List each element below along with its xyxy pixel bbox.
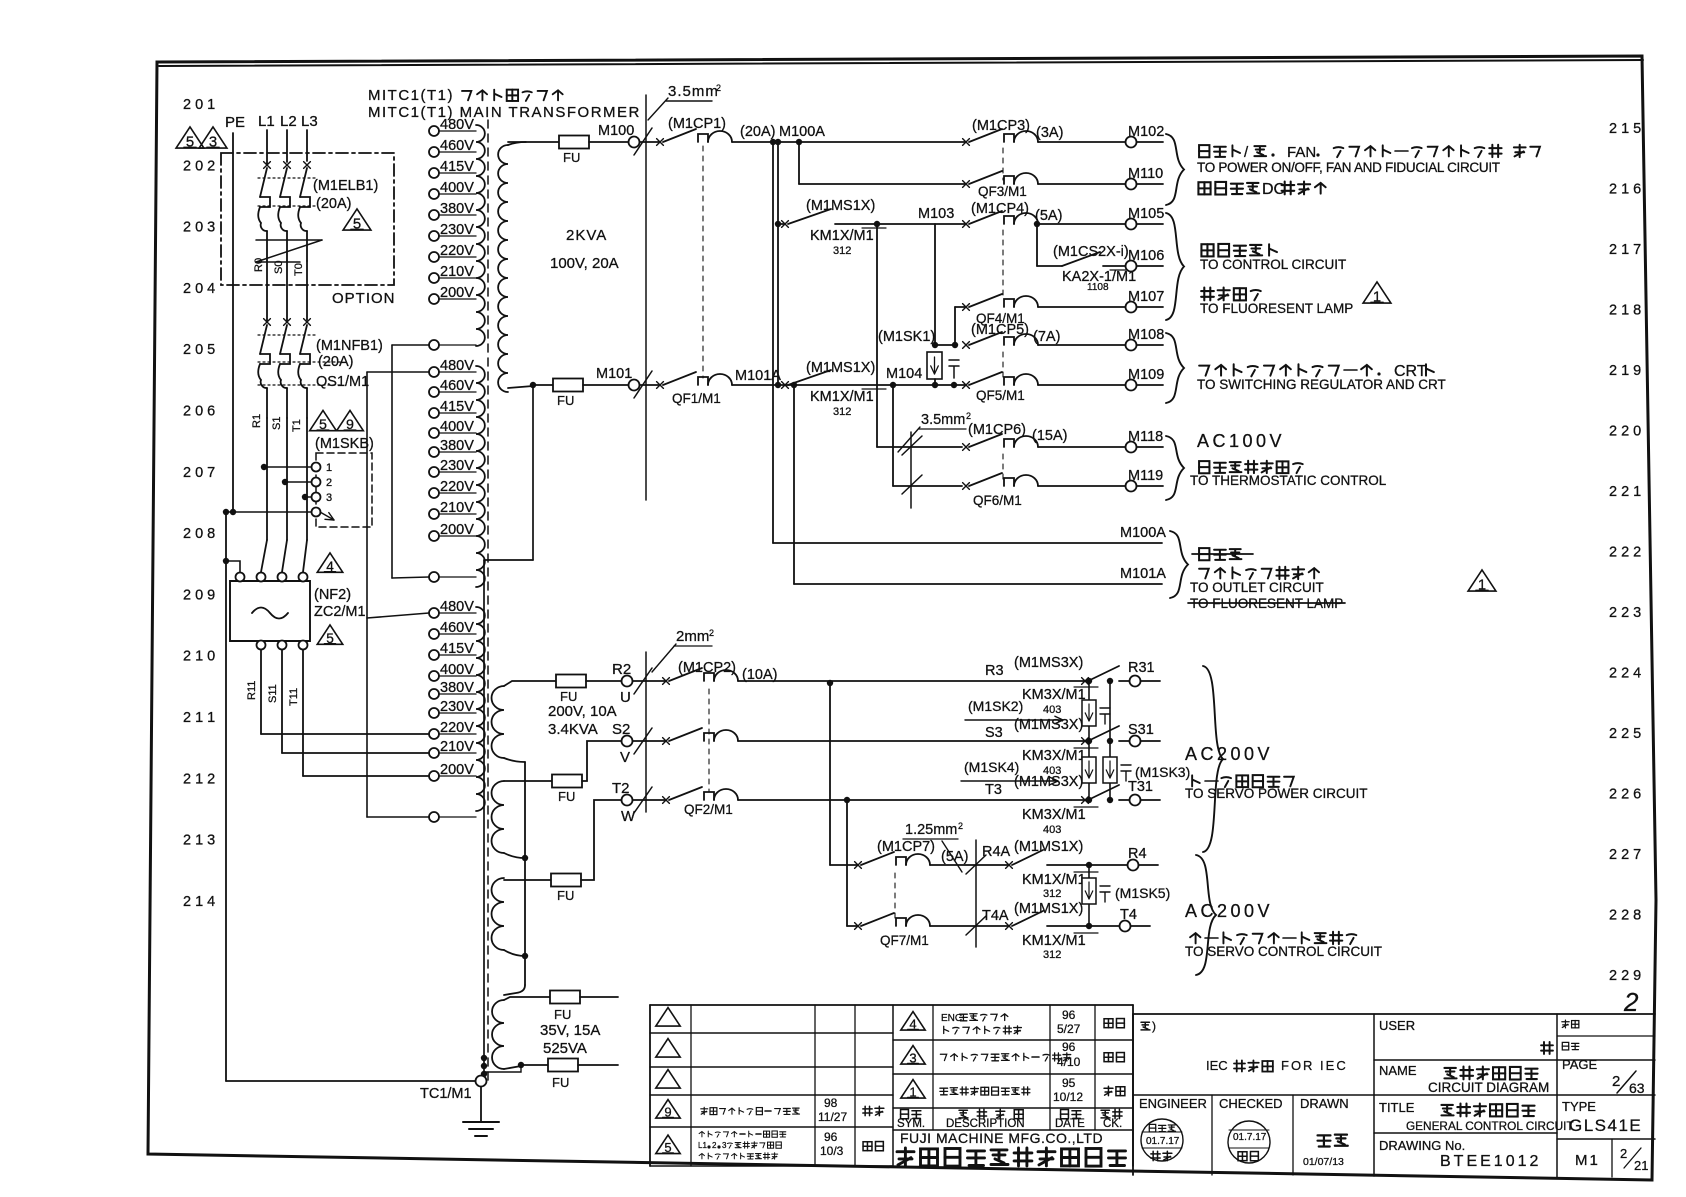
wire secondary3 bottom lead xyxy=(504,1066,521,1069)
svg-text:312: 312 xyxy=(1043,888,1061,900)
svg-text:M103: M103 xyxy=(918,206,954,222)
wire 480V group2 to 480V group3 bus xyxy=(367,371,429,373)
svg-text:QF5/M1: QF5/M1 xyxy=(976,388,1025,403)
wire secondary3 top lead xyxy=(504,997,550,1000)
svg-text:FU: FU xyxy=(557,393,574,408)
svg-text:2 0 4: 2 0 4 xyxy=(183,281,215,297)
svg-text:2 1 7: 2 1 7 xyxy=(1609,242,1641,258)
svg-text:2: 2 xyxy=(712,1141,717,1150)
transformer T1 secondary 2KVA coil xyxy=(498,145,508,392)
svg-text:L2: L2 xyxy=(280,113,297,130)
svg-text:MITC1(T1): MITC1(T1) xyxy=(368,87,454,104)
svg-text:M100A: M100A xyxy=(779,124,825,140)
transformer T1 secondary 35V coil xyxy=(492,1000,504,1069)
svg-text:QF1/M1: QF1/M1 xyxy=(672,391,721,406)
svg-text:2 0 6: 2 0 6 xyxy=(183,404,215,420)
svg-text:2 1 9: 2 1 9 xyxy=(1609,363,1641,379)
svg-text:(M1CP2): (M1CP2) xyxy=(678,660,736,676)
svg-text:M101A: M101A xyxy=(1120,566,1166,582)
wire NF2 out3 to tap 200V xyxy=(302,650,304,776)
transformer T1 primary winding 1 coil xyxy=(476,125,485,346)
breaker M1CP2 pole R xyxy=(634,668,652,694)
svg-text:2 2 7: 2 2 7 xyxy=(1609,847,1641,863)
revision triangles 5 3 top left xyxy=(176,127,204,148)
svg-text:IEC: IEC xyxy=(1206,1058,1228,1073)
wire tap leads winding 1 xyxy=(439,130,476,132)
fuse FU M101 xyxy=(553,379,583,392)
svg-text:KM1X/M1: KM1X/M1 xyxy=(810,228,874,244)
transformer T1 core xyxy=(487,120,489,1085)
transformer T1 primary winding 3 taps xyxy=(429,608,439,618)
wire PE vertical xyxy=(232,133,234,512)
svg-text:2 2 1: 2 2 1 xyxy=(1609,484,1641,500)
svg-text:98: 98 xyxy=(824,1096,838,1110)
svg-text:(M1MS1X): (M1MS1X) xyxy=(1014,901,1083,917)
terminal R4 xyxy=(1128,860,1139,871)
svg-text:M1: M1 xyxy=(1575,1152,1600,1169)
wire tap leads winding 2 xyxy=(439,371,476,373)
wire-size slash 3.5mm2 top xyxy=(634,128,652,155)
svg-text:KM1X/M1: KM1X/M1 xyxy=(1022,872,1086,888)
svg-text:2: 2 xyxy=(709,628,714,638)
wire M100A xyxy=(732,141,966,143)
transformer T1 secondary 200V 10A coil seg1 xyxy=(492,686,504,758)
svg-text:2 2 9: 2 2 9 xyxy=(1609,968,1641,984)
svg-text:3.5mm: 3.5mm xyxy=(668,83,719,100)
svg-text:4/10: 4/10 xyxy=(1057,1055,1081,1069)
svg-text:(M1CP5): (M1CP5) xyxy=(971,322,1029,338)
label to control circuit xyxy=(1201,244,1213,256)
svg-text:FU: FU xyxy=(554,1007,571,1022)
svg-text:QF7/M1: QF7/M1 xyxy=(880,933,929,948)
svg-text:(M1SKB): (M1SKB) xyxy=(315,436,374,452)
svg-text:1: 1 xyxy=(1478,577,1486,593)
wire M101 to QF1 xyxy=(640,384,660,386)
svg-text:(M1SK3): (M1SK3) xyxy=(1135,764,1190,780)
transformer T1 primary winding 1 taps xyxy=(429,126,439,136)
wire L1 xyxy=(266,130,268,164)
svg-text:M100A: M100A xyxy=(1120,525,1166,541)
svg-text:1108: 1108 xyxy=(1087,282,1109,293)
svg-text:3: 3 xyxy=(326,492,332,504)
breaker QF5/M1 xyxy=(963,382,970,389)
svg-text:(M1SK1): (M1SK1) xyxy=(878,329,935,345)
svg-text:(M1MS1X): (M1MS1X) xyxy=(806,360,875,376)
svg-text:95: 95 xyxy=(1062,1076,1076,1090)
svg-text:2 0 8: 2 0 8 xyxy=(183,526,215,542)
svg-text:S31: S31 xyxy=(1128,722,1154,738)
svg-text:QS1/M1: QS1/M1 xyxy=(316,374,369,390)
svg-text:2 1 6: 2 1 6 xyxy=(1609,182,1641,198)
svg-text:S1: S1 xyxy=(271,417,283,430)
wire feed QF7 xyxy=(846,800,848,926)
svg-text:63: 63 xyxy=(1629,1080,1645,1096)
svg-text:(M1MS3X): (M1MS3X) xyxy=(1014,655,1083,671)
svg-text:R0: R0 xyxy=(253,258,265,272)
svg-text:5: 5 xyxy=(186,134,194,150)
revision triangle 1 outlet xyxy=(1468,570,1496,591)
svg-text:3: 3 xyxy=(209,134,217,150)
svg-text:): ) xyxy=(1152,1019,1156,1033)
wire L2 xyxy=(286,130,288,162)
svg-text:2 0 7: 2 0 7 xyxy=(183,465,215,481)
secondary2 return bus xyxy=(504,758,525,762)
svg-text:FUJI MACHINE MFG.CO.,LTD: FUJI MACHINE MFG.CO.,LTD xyxy=(900,1130,1103,1146)
wire R3 xyxy=(738,680,1085,682)
junction M100A to QF3 xyxy=(770,139,776,145)
wire feed M1CP7 xyxy=(829,681,831,865)
svg-text:W: W xyxy=(621,808,636,825)
svg-text:2 0 3: 2 0 3 xyxy=(183,220,215,236)
svg-text:TITLE: TITLE xyxy=(1379,1100,1415,1115)
svg-text:1: 1 xyxy=(326,462,332,474)
label to switching regulator xyxy=(1199,366,1209,376)
svg-text:DRAWING No.: DRAWING No. xyxy=(1379,1138,1465,1153)
svg-text:200V, 10A: 200V, 10A xyxy=(548,703,617,720)
bracket group servo power xyxy=(1203,666,1223,852)
svg-text:KM1X/M1: KM1X/M1 xyxy=(810,389,874,405)
svg-text:GENERAL CONTROL CIRCUIT: GENERAL CONTROL CIRCUIT xyxy=(1406,1119,1574,1133)
wire aux1 to right xyxy=(580,996,618,998)
wire to M108 xyxy=(1038,344,1125,346)
svg-text:TO CONTROL CIRCUIT: TO CONTROL CIRCUIT xyxy=(1200,257,1346,272)
svg-text:2 0 5: 2 0 5 xyxy=(183,342,215,358)
svg-text:2: 2 xyxy=(966,411,971,421)
svg-text:FU: FU xyxy=(563,150,580,165)
svg-text:21: 21 xyxy=(1634,1158,1648,1173)
bracket group AC100V xyxy=(1166,436,1184,500)
terminal T31 xyxy=(1086,797,1092,803)
terminal T4 xyxy=(1120,921,1131,932)
mech link M1CP6 QF6 xyxy=(1002,454,1004,481)
breaker M1CP2 pole S xyxy=(634,728,652,754)
wire NF2 out2 to tap 210V xyxy=(281,650,283,753)
wire to M102 xyxy=(1038,141,1125,143)
svg-text:2 1 0: 2 1 0 xyxy=(183,649,215,665)
fuse FU T2 xyxy=(551,874,581,887)
revision triangle 5 in option box xyxy=(343,209,371,230)
svg-text:L1: L1 xyxy=(698,1141,707,1150)
svg-text:ENC: ENC xyxy=(941,1013,962,1024)
svg-text:M100: M100 xyxy=(598,123,634,139)
svg-text:FU: FU xyxy=(552,1075,569,1090)
breaker M1ELB1 (option) xyxy=(221,153,394,285)
svg-text:M101A: M101A xyxy=(735,368,781,384)
mech link M1CP4 QF4 xyxy=(1002,230,1004,300)
svg-text:R31: R31 xyxy=(1128,660,1155,676)
svg-text:TO THERMOSTATIC CONTROL: TO THERMOSTATIC CONTROL xyxy=(1190,473,1387,488)
snubber M1SK1 xyxy=(934,224,936,345)
wire SKB-4 to left bus xyxy=(223,509,229,515)
bracket group control xyxy=(1166,213,1184,320)
svg-text:KM3X/M1: KM3X/M1 xyxy=(1022,687,1086,703)
svg-text:FU: FU xyxy=(558,789,575,804)
svg-text:(20A): (20A) xyxy=(318,354,353,370)
svg-text:(M1CS2X-i): (M1CS2X-i) xyxy=(1053,244,1129,260)
svg-text:TYPE: TYPE xyxy=(1562,1099,1596,1114)
svg-text:2: 2 xyxy=(1620,1146,1627,1161)
svg-text:KM1X/M1: KM1X/M1 xyxy=(1022,933,1086,949)
svg-text:312: 312 xyxy=(1043,949,1061,961)
svg-text:(20A): (20A) xyxy=(740,124,775,140)
terminal S31 xyxy=(1086,738,1092,744)
svg-text:NAME: NAME xyxy=(1379,1063,1417,1078)
svg-text:DESCRIPTION: DESCRIPTION xyxy=(946,1118,1025,1130)
left bus vertical xyxy=(225,512,227,1081)
breaker M1CP5 xyxy=(963,342,970,349)
svg-text:01.7.17: 01.7.17 xyxy=(1233,1132,1267,1143)
svg-text:2 2 5: 2 2 5 xyxy=(1609,726,1641,742)
svg-text:U: U xyxy=(620,689,631,706)
svg-text:MITC1(T1) MAIN TRANSFORMER: MITC1(T1) MAIN TRANSFORMER xyxy=(368,104,641,121)
svg-text:1.25mm: 1.25mm xyxy=(905,822,957,838)
relay contact M1CS2X-1 to M106 xyxy=(1036,224,1038,266)
svg-text:3: 3 xyxy=(722,1141,727,1150)
svg-text:FU: FU xyxy=(557,888,574,903)
wire 0V group3 return xyxy=(367,816,429,818)
transformer T1 secondary 200V 10A coil seg2 xyxy=(492,781,504,853)
bracket group outlet xyxy=(1170,531,1188,598)
svg-text:CHECKED: CHECKED xyxy=(1219,1096,1283,1111)
svg-text:M104: M104 xyxy=(886,366,922,382)
wire L3 xyxy=(306,130,308,161)
svg-text:96: 96 xyxy=(1062,1040,1076,1054)
wire tap leads winding 3 xyxy=(439,612,476,614)
wire M101A xyxy=(732,384,966,386)
svg-text:2: 2 xyxy=(1623,987,1639,1017)
svg-text:TO OUTLET CIRCUIT: TO OUTLET CIRCUIT xyxy=(1190,580,1324,595)
svg-text:2mm: 2mm xyxy=(676,628,709,645)
svg-text:(M1CP6): (M1CP6) xyxy=(968,422,1026,438)
svg-text:T0: T0 xyxy=(293,263,305,276)
svg-text:AC100V: AC100V xyxy=(1197,431,1285,451)
svg-text:OPTION: OPTION xyxy=(332,290,396,307)
breaker M1CP7 xyxy=(855,862,862,869)
svg-text:(NF2): (NF2) xyxy=(314,587,351,603)
svg-text:2 1 1: 2 1 1 xyxy=(183,710,215,726)
svg-text:ZC2/M1: ZC2/M1 xyxy=(314,604,366,620)
ground xyxy=(480,1087,482,1122)
svg-text:(M1SK2): (M1SK2) xyxy=(968,698,1023,714)
wires to QS1 xyxy=(266,261,268,322)
svg-text:525VA: 525VA xyxy=(543,1040,587,1057)
wire to M105 xyxy=(1034,221,1040,227)
wire feed M1CP6 xyxy=(876,224,878,447)
svg-text:(3A): (3A) xyxy=(1036,125,1063,141)
svg-text:BTEE1012: BTEE1012 xyxy=(1440,1153,1541,1170)
fuse FU M100 xyxy=(559,136,589,149)
wire to M110 xyxy=(1038,183,1125,185)
wire S1 to SKB-2 xyxy=(282,479,288,485)
svg-text:FOR IEC: FOR IEC xyxy=(1281,1058,1348,1073)
svg-text:CK.: CK. xyxy=(1103,1118,1122,1130)
svg-text:DATE: DATE xyxy=(1055,1118,1085,1130)
breaker QF3/M1 xyxy=(963,181,970,188)
svg-text:QF6/M1: QF6/M1 xyxy=(973,493,1022,508)
fuse FU R2 xyxy=(556,675,586,688)
wire NF2 out1 to tap 220V xyxy=(260,650,262,734)
wire secondary1 top lead to fuse xyxy=(508,142,526,145)
svg-text:TO SWITCHING REGULATOR AND CRT: TO SWITCHING REGULATOR AND CRT xyxy=(1197,377,1446,392)
svg-text:TC1/M1: TC1/M1 xyxy=(420,1086,472,1102)
svg-text:2: 2 xyxy=(958,821,963,831)
revision triangle 4 xyxy=(317,553,343,572)
svg-text:2 0 9: 2 0 9 xyxy=(183,587,215,603)
svg-text:100V, 20A: 100V, 20A xyxy=(550,255,619,272)
svg-text:2 2 6: 2 2 6 xyxy=(1609,787,1641,803)
svg-text:GLS41E: GLS41E xyxy=(1569,1116,1642,1135)
svg-text:USER: USER xyxy=(1379,1018,1415,1033)
breaker M1CP1 pole2 QF1/M1 xyxy=(657,382,664,389)
bracket group regulator xyxy=(1166,333,1184,403)
svg-text:R3: R3 xyxy=(985,663,1004,679)
svg-text:1: 1 xyxy=(1373,289,1381,305)
svg-text:(M1CP1): (M1CP1) xyxy=(668,116,726,132)
revision triangle 1 right xyxy=(1363,282,1391,303)
fuse FU aux1 xyxy=(550,991,580,1004)
wire M101A outlet xyxy=(793,385,795,584)
svg-text:DC: DC xyxy=(1262,181,1285,198)
wire to M107 xyxy=(1038,306,1125,308)
svg-text:2 1 5: 2 1 5 xyxy=(1609,121,1641,137)
transformer T1 primary winding 3 coil xyxy=(476,607,485,811)
mech link M1CP5 QF5 xyxy=(1002,352,1004,380)
svg-text:PAGE: PAGE xyxy=(1562,1057,1597,1072)
breaker QF6/M1 xyxy=(963,483,970,490)
secondary return bus to ground xyxy=(532,385,534,560)
svg-text:(M1CP7): (M1CP7) xyxy=(877,839,935,855)
svg-text:2 1 3: 2 1 3 xyxy=(183,833,215,849)
svg-text:S11: S11 xyxy=(267,684,279,703)
bracket group power on/off xyxy=(1166,134,1184,205)
svg-text:2 0 1: 2 0 1 xyxy=(183,97,215,113)
svg-text:2 1 4: 2 1 4 xyxy=(183,894,215,910)
breaker M1CP4 xyxy=(963,221,970,228)
svg-text:TO SERVO POWER CIRCUIT: TO SERVO POWER CIRCUIT xyxy=(1185,786,1368,801)
svg-text:(15A): (15A) xyxy=(1032,428,1067,444)
terminal TC1/M1 xyxy=(476,1076,487,1087)
filter NF2 ZC2/M1 xyxy=(230,581,310,641)
wire to M119 xyxy=(1038,485,1125,487)
svg-text:312: 312 xyxy=(833,406,851,418)
svg-text:KM3X/M1: KM3X/M1 xyxy=(1022,748,1086,764)
svg-text:01/07/13: 01/07/13 xyxy=(1303,1156,1344,1168)
svg-text:2: 2 xyxy=(326,477,332,489)
svg-text:2: 2 xyxy=(1612,1073,1620,1090)
fuse FU S2 xyxy=(552,775,582,788)
wire feed QF6 xyxy=(892,385,894,486)
mech link M1CP7 xyxy=(894,873,896,918)
svg-text:ENGINEER: ENGINEER xyxy=(1139,1096,1207,1111)
svg-text:TO FLUORESENT LAMP: TO FLUORESENT LAMP xyxy=(1200,301,1353,316)
bracket group servo control xyxy=(1196,855,1216,975)
svg-text:10/12: 10/12 xyxy=(1053,1090,1083,1104)
svg-text:TO POWER ON/OFF, FAN AND FIDUC: TO POWER ON/OFF, FAN AND FIDUCIAL CIRCUI… xyxy=(1197,160,1500,175)
svg-text:(7A): (7A) xyxy=(1033,329,1060,345)
svg-text:AC200V: AC200V xyxy=(1185,744,1273,764)
svg-text:T1: T1 xyxy=(291,419,303,432)
svg-text:(M1CP3): (M1CP3) xyxy=(972,118,1030,134)
breaker M1NFB1 QS1/M1 xyxy=(264,319,271,326)
wire secondary2 T lead via fuse xyxy=(504,879,551,881)
mech link M1CP2 xyxy=(708,689,710,792)
wire secondary2 S lead via fuse xyxy=(504,780,552,782)
revision triangles 5 9 xyxy=(310,410,337,430)
wires QS1 to NF2 xyxy=(266,418,268,540)
svg-text:(5A): (5A) xyxy=(941,849,968,865)
svg-text:FU: FU xyxy=(560,689,577,704)
wire secondary2 R lead xyxy=(504,681,556,686)
svg-text:11/27: 11/27 xyxy=(818,1110,847,1124)
svg-text:PE: PE xyxy=(225,114,245,131)
svg-text:CIRCUIT DIAGRAM: CIRCUIT DIAGRAM xyxy=(1428,1080,1549,1095)
transformer T1 secondary 200V 10A coil seg3 xyxy=(492,878,504,950)
svg-text:QF3/M1: QF3/M1 xyxy=(978,184,1027,199)
svg-text:T4A: T4A xyxy=(982,908,1009,924)
wire bottom to TC1/M1 xyxy=(226,1080,475,1082)
title block xyxy=(650,1004,1133,1006)
svg-text:2 2 2: 2 2 2 xyxy=(1609,545,1641,561)
breaker M1CP1 pole1 xyxy=(657,139,664,146)
wire to M118 xyxy=(1038,446,1125,448)
snubber M1SK5 xyxy=(1088,865,1090,926)
wire secondary1 bottom lead xyxy=(508,386,533,388)
svg-text:2 2 3: 2 2 3 xyxy=(1609,605,1641,621)
svg-text:T3: T3 xyxy=(985,782,1002,798)
terminal R31 xyxy=(1086,678,1092,684)
svg-text:2 1 2: 2 1 2 xyxy=(183,771,215,787)
svg-text:96: 96 xyxy=(824,1130,838,1144)
wire to M109 xyxy=(1038,384,1125,386)
svg-text:(M1CP4): (M1CP4) xyxy=(971,201,1029,217)
svg-text:QF2/M1: QF2/M1 xyxy=(684,802,733,817)
mech link M1CP1 xyxy=(702,146,704,378)
svg-text:S3: S3 xyxy=(985,725,1003,741)
svg-text:35V, 15A: 35V, 15A xyxy=(540,1022,600,1039)
wire M100A outlet xyxy=(772,142,774,543)
svg-text:(M1SK4): (M1SK4) xyxy=(964,759,1019,775)
svg-text:V: V xyxy=(620,749,630,766)
wire T3 xyxy=(738,799,1085,801)
svg-text:SYM.: SYM. xyxy=(897,1118,925,1130)
svg-text:FAN: FAN xyxy=(1287,144,1316,161)
svg-text:T31: T31 xyxy=(1128,779,1153,795)
svg-text:(M1MS1X): (M1MS1X) xyxy=(806,198,875,214)
svg-text:L1: L1 xyxy=(258,113,275,130)
note cell xyxy=(1141,1022,1150,1030)
svg-text:AC200V: AC200V xyxy=(1185,901,1273,921)
breaker M1CP2 pole T QF2/M1 xyxy=(634,787,652,813)
mech link M1CP3 xyxy=(1002,148,1004,180)
breaker M1CP6 xyxy=(963,444,970,451)
svg-text:96: 96 xyxy=(1062,1008,1076,1022)
svg-text:(20A): (20A) xyxy=(316,196,351,212)
bus KM1X feed xyxy=(777,142,779,385)
breaker M1CP3 xyxy=(963,139,970,146)
svg-text:R4: R4 xyxy=(1128,846,1147,862)
svg-text:403: 403 xyxy=(1043,824,1061,836)
svg-text:5: 5 xyxy=(353,216,361,232)
svg-text:T11: T11 xyxy=(288,688,300,706)
transformer T1 primary winding 2 coil xyxy=(476,366,485,587)
svg-text:(M1NFB1): (M1NFB1) xyxy=(316,338,383,354)
svg-text:M101: M101 xyxy=(596,366,632,382)
svg-text:2 1 8: 2 1 8 xyxy=(1609,303,1641,319)
label outlet circuit xyxy=(1199,548,1209,560)
wire R1 to SKB-1 xyxy=(261,464,267,470)
svg-text:312: 312 xyxy=(833,245,851,257)
breaker QF7/M1 xyxy=(855,923,862,930)
